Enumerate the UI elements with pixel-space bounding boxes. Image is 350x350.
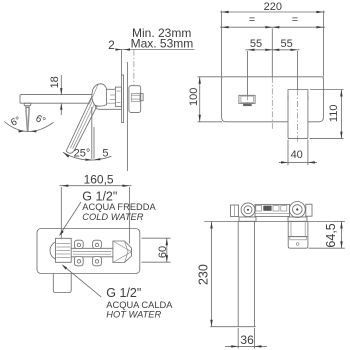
svg-text:55: 55 [250,38,262,50]
svg-text:220: 220 [264,1,282,13]
svg-text:100: 100 [188,88,200,106]
svg-text:COLD WATER: COLD WATER [82,212,143,222]
svg-text:25°: 25° [74,148,91,160]
svg-text:=: = [292,14,298,26]
svg-text:ACQUA CALDA: ACQUA CALDA [106,300,173,310]
svg-text:Max. 53mm: Max. 53mm [131,37,194,51]
svg-text:55: 55 [280,38,292,50]
svg-text:=: = [249,14,255,26]
svg-text:36: 36 [240,333,254,347]
svg-text:160,5: 160,5 [84,173,114,187]
svg-text:G 1/2": G 1/2" [106,286,141,300]
svg-text:230: 230 [196,264,210,285]
svg-text:40: 40 [291,149,303,161]
svg-text:64,5: 64,5 [324,223,338,247]
svg-text:18: 18 [49,76,61,88]
svg-text:60: 60 [157,246,169,258]
svg-text:5: 5 [102,148,108,160]
svg-text:110: 110 [328,105,340,123]
svg-text:ACQUA FREDDA: ACQUA FREDDA [82,202,156,212]
svg-text:HOT WATER: HOT WATER [106,310,161,320]
svg-text:2: 2 [108,38,115,52]
